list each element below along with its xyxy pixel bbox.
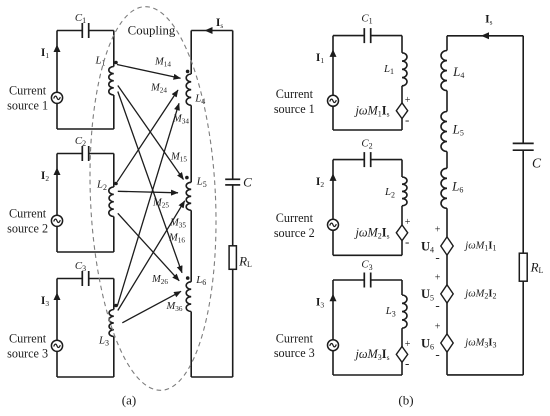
current source 3 symbol	[51, 340, 62, 351]
svg-text:+: +	[435, 273, 441, 284]
inductor L6 (b)	[441, 168, 447, 208]
label C2	[75, 135, 86, 148]
current source 2 symbol (b)	[328, 219, 339, 230]
capacitor C (a)	[225, 179, 240, 185]
wire secondary-a left-2	[190, 105, 192, 182]
resistor RL (b)	[519, 253, 527, 281]
wire loop3b top-left	[333, 279, 364, 281]
resistor RL (a)	[229, 246, 236, 269]
label - (U6)	[435, 347, 439, 362]
label Current source 1 (b) line2	[274, 102, 315, 116]
label M16	[168, 233, 185, 245]
label + (U5)	[435, 273, 441, 284]
inductor L4 (b)	[441, 51, 447, 91]
dependent source U5	[441, 285, 453, 303]
label Is (a)	[216, 17, 223, 30]
wire loop3a top-left	[57, 278, 82, 280]
svg-text:+: +	[435, 322, 441, 333]
label I3	[41, 295, 49, 308]
current arrow Is (a)	[205, 27, 213, 34]
label jwM2Is	[353, 226, 389, 241]
label Current source 3 (b) line2	[274, 346, 315, 360]
label C (b)	[532, 155, 542, 170]
wire secondary-a bottom	[191, 376, 233, 378]
wire secondary-a right-mid	[232, 185, 234, 246]
wire loop3b bottom	[333, 374, 402, 376]
svg-text:+: +	[405, 217, 411, 228]
wire loop1a right-lower	[113, 95, 115, 129]
label L2	[96, 179, 107, 192]
wire equivalent-b left-2	[446, 91, 448, 112]
label M24	[150, 83, 167, 95]
wire loop2a right-upper	[113, 154, 115, 188]
coupling dot L6	[186, 276, 190, 280]
wire equivalent-b right-lower	[522, 281, 524, 375]
coupling dot L4	[186, 70, 190, 74]
label Current source 3 (b) line1	[276, 331, 314, 345]
svg-text:+: +	[405, 95, 411, 106]
label - (loop3b)	[405, 356, 409, 371]
wire loop2a top-right	[89, 153, 114, 155]
wire secondary-a right-upper	[232, 31, 234, 180]
label C3	[75, 260, 86, 273]
label L4	[194, 93, 205, 106]
dependent source U6	[441, 334, 453, 352]
wire loop3a left-lower	[56, 352, 58, 378]
current arrow I2	[54, 168, 61, 176]
wire loop3b right-mid	[401, 328, 403, 346]
label I2 (b)	[316, 176, 324, 189]
capacitor C (b)	[513, 143, 534, 150]
wire secondary-a left-1	[190, 31, 192, 75]
svg-text:source 1: source 1	[274, 102, 315, 116]
wire loop2b right-upper	[401, 160, 403, 177]
label Is (b)	[485, 14, 492, 27]
wire loop1a left-upper	[56, 31, 58, 93]
label I1	[41, 47, 49, 60]
wire loop1a top-left	[57, 30, 82, 32]
inductor L1 (b)	[402, 53, 407, 86]
wire loop1b top-left	[333, 35, 364, 37]
label I2	[41, 170, 49, 183]
current arrow I1	[54, 45, 61, 53]
svg-text:Current: Current	[9, 83, 47, 97]
svg-text:source 1: source 1	[7, 99, 48, 113]
svg-text:-: -	[435, 347, 439, 362]
coupling dot L1	[114, 61, 118, 65]
label jwM1I1	[463, 240, 496, 252]
label RL (b)	[530, 259, 544, 275]
svg-text:source 3: source 3	[274, 346, 315, 360]
wire loop1b right-mid	[401, 86, 403, 103]
wire equivalent-b left-5	[446, 255, 448, 285]
svg-text:-: -	[405, 234, 409, 249]
wire loop1b left-upper	[332, 36, 334, 96]
label C (a)	[243, 175, 252, 190]
wire loop1b left-lower	[332, 106, 334, 130]
mutual coupling arrow M26	[118, 213, 179, 280]
wire loop2a right-lower	[113, 217, 115, 253]
label + (loop3b)	[405, 339, 411, 350]
current arrow I1 (b)	[330, 49, 337, 57]
inductor L1	[109, 67, 114, 96]
dependent source jwM1Is	[396, 103, 407, 119]
inductor L5	[186, 182, 191, 210]
wire secondary-a top	[191, 30, 233, 32]
mutual coupling arrow M25	[118, 191, 178, 193]
wire loop3a bottom	[57, 376, 114, 378]
svg-text:Current: Current	[276, 331, 314, 345]
svg-text:C: C	[243, 175, 252, 190]
capacitor C2	[82, 146, 88, 161]
label M14	[154, 56, 171, 68]
current source 1 symbol (b)	[328, 95, 339, 106]
wire secondary-a left-3	[190, 210, 192, 281]
coupling dot L2	[114, 182, 118, 186]
wire equivalent-b right-upper	[522, 36, 524, 143]
label L5	[196, 176, 207, 189]
svg-text:jωM1Is: jωM1Is	[353, 104, 389, 119]
mutual coupling arrow M36	[122, 291, 181, 323]
label L2 (b)	[384, 186, 395, 199]
svg-text:jωM2I2: jωM2I2	[463, 288, 496, 300]
label Current source 2 line1	[9, 206, 47, 220]
label L3 (b)	[385, 305, 396, 318]
svg-text:(b): (b)	[398, 392, 413, 407]
current arrow I3 (b)	[330, 294, 337, 302]
svg-text:jωM2Is: jωM2Is	[353, 226, 389, 241]
current source 1 symbol	[51, 92, 62, 103]
wire loop3a right-lower	[113, 337, 115, 378]
svg-text:source 2: source 2	[7, 222, 48, 236]
label Current source 2 (b) line2	[274, 226, 315, 240]
inductor L3 (b)	[402, 295, 407, 328]
label jwM2I2	[463, 288, 496, 300]
caption (b)	[398, 392, 413, 407]
svg-text:source 2: source 2	[274, 226, 315, 240]
capacitor C2 (b)	[364, 152, 370, 167]
wire loop3b right-lower	[401, 362, 403, 375]
wire loop3a left-upper	[56, 279, 58, 341]
label Current source 1 line2	[7, 99, 48, 113]
current arrow I3	[54, 293, 61, 301]
label - (loop1b)	[405, 112, 409, 127]
wire equivalent-b top	[447, 35, 523, 37]
label Current source 2 line2	[7, 222, 48, 236]
svg-text:Current: Current	[9, 206, 47, 220]
caption (a)	[122, 392, 136, 407]
svg-text:Current: Current	[276, 87, 314, 101]
label L6	[195, 274, 206, 287]
wire loop3b top-right	[371, 279, 402, 281]
inductor L2	[109, 187, 114, 217]
capacitor C1	[82, 23, 88, 38]
dependent source jwM3Is	[396, 347, 407, 363]
svg-text:-: -	[435, 250, 439, 265]
wire loop2b top-left	[333, 159, 364, 161]
wire loop2a left-upper	[56, 154, 58, 216]
label Current source 3 line1	[9, 331, 47, 345]
inductor L4	[186, 74, 191, 105]
wire loop2b bottom	[333, 254, 402, 256]
label + (U6)	[435, 322, 441, 333]
label L1 (b)	[383, 63, 394, 76]
label M36	[166, 301, 183, 313]
label Coupling	[128, 24, 176, 38]
wire secondary-a right-lower	[232, 269, 234, 377]
svg-text:jωM3Is: jωM3Is	[353, 347, 389, 362]
dependent source U4	[441, 237, 453, 255]
wire loop3a top-right	[89, 278, 114, 280]
wire loop1b top-right	[371, 35, 402, 37]
wire secondary-a left-4	[190, 312, 192, 378]
label + (loop2b)	[405, 217, 411, 228]
wire loop1a bottom	[57, 128, 114, 130]
coupling dot L3	[114, 304, 118, 308]
label jwM1Is	[353, 104, 389, 119]
wire loop2b right-lower	[401, 241, 403, 256]
label C3 (b)	[361, 259, 372, 272]
inductor L5 (b)	[441, 112, 447, 152]
label C2 (b)	[361, 137, 372, 150]
label Current source 1 (b) line1	[276, 87, 314, 101]
wire equivalent-b left-4	[446, 208, 448, 237]
svg-text:Coupling: Coupling	[128, 24, 176, 38]
label U4	[421, 239, 434, 254]
coupling region ellipse	[82, 4, 224, 393]
label L6 (b)	[451, 178, 463, 194]
wire loop2b left-upper	[332, 160, 334, 220]
svg-text:-: -	[435, 298, 439, 313]
wire loop1a right-upper	[113, 31, 115, 67]
wire loop1a top-right	[89, 30, 114, 32]
label M35	[169, 218, 186, 230]
label I1 (b)	[316, 52, 324, 65]
wire loop1a left-lower	[56, 104, 58, 130]
wire equivalent-b left-6	[446, 303, 448, 334]
label I3 (b)	[316, 297, 324, 310]
svg-text:(a): (a)	[122, 392, 136, 407]
label Current source 1 line1	[9, 83, 47, 97]
svg-text:-: -	[405, 356, 409, 371]
svg-text:jωM3I3: jωM3I3	[463, 337, 496, 349]
inductor L2 (b)	[402, 177, 407, 206]
wire loop3b left-upper	[332, 280, 334, 340]
wire equivalent-b left-1	[446, 36, 448, 51]
capacitor C3 (b)	[364, 273, 370, 288]
label M25	[152, 198, 169, 210]
wire loop1b bottom	[333, 129, 402, 131]
current arrow Is (b)	[481, 32, 489, 39]
label U6	[421, 336, 434, 351]
mutual coupling arrow M34	[117, 103, 179, 306]
wire loop2a left-lower	[56, 227, 58, 253]
capacitor C3	[82, 271, 88, 286]
wire loop2b left-lower	[332, 230, 334, 255]
wire loop1b right-upper	[401, 36, 403, 53]
mutual coupling arrow M24	[117, 90, 178, 182]
capacitor C1 (b)	[364, 28, 370, 43]
wire equivalent-b left-3	[446, 152, 448, 169]
label M15	[170, 152, 187, 164]
inductor L3	[109, 310, 114, 337]
wire equivalent-b bottom	[447, 374, 523, 376]
label Current source 3 line2	[7, 347, 48, 361]
label Current source 2 (b) line1	[276, 211, 314, 225]
svg-text:Current: Current	[9, 331, 47, 345]
label jwM3I3	[463, 337, 496, 349]
wire loop1b right-lower	[401, 119, 403, 130]
label - (loop2b)	[405, 234, 409, 249]
wire equivalent-b right-mid	[522, 151, 524, 254]
label L3	[98, 334, 109, 347]
wire loop3b left-lower	[332, 351, 334, 375]
label + (loop1b)	[405, 95, 411, 106]
wire loop2b right-mid	[401, 206, 403, 225]
coupling dot L5	[185, 176, 189, 180]
svg-text:+: +	[435, 225, 441, 236]
mutual coupling arrow M35	[118, 201, 185, 311]
dependent source jwM2Is	[396, 225, 407, 241]
wire loop2a bottom	[57, 251, 114, 253]
current source 3 symbol (b)	[328, 340, 339, 351]
svg-text:-: -	[405, 112, 409, 127]
label - (U5)	[435, 298, 439, 313]
label RL (a)	[238, 253, 252, 269]
svg-text:source 3: source 3	[7, 347, 48, 361]
current source 2 symbol	[51, 215, 62, 226]
label C1	[75, 12, 86, 25]
svg-text:+: +	[405, 339, 411, 350]
wire loop3b right-upper	[401, 280, 403, 295]
label jwM3Is	[353, 347, 389, 362]
inductor L6	[186, 282, 191, 312]
mutual coupling arrow M14	[117, 65, 181, 79]
wire loop2b top-right	[371, 159, 402, 161]
label L4 (b)	[452, 64, 464, 80]
label C1 (b)	[361, 12, 372, 25]
label M34	[172, 114, 189, 126]
mutual coupling arrow M15	[118, 86, 184, 180]
current arrow I2 (b)	[330, 173, 337, 181]
wire equivalent-b left-7	[446, 352, 448, 375]
label M26	[151, 274, 168, 286]
label L5 (b)	[452, 121, 464, 137]
wire loop3a right-upper	[113, 279, 115, 310]
svg-text:C: C	[532, 155, 542, 170]
mutual coupling arrow M16	[118, 92, 182, 273]
svg-text:Current: Current	[276, 211, 314, 225]
label - (U4)	[435, 250, 439, 265]
label L1	[94, 54, 105, 67]
wire loop2a top-left	[57, 153, 82, 155]
svg-text:jωM1I1: jωM1I1	[463, 240, 496, 252]
label + (U4)	[435, 225, 441, 236]
label U5	[421, 287, 434, 302]
